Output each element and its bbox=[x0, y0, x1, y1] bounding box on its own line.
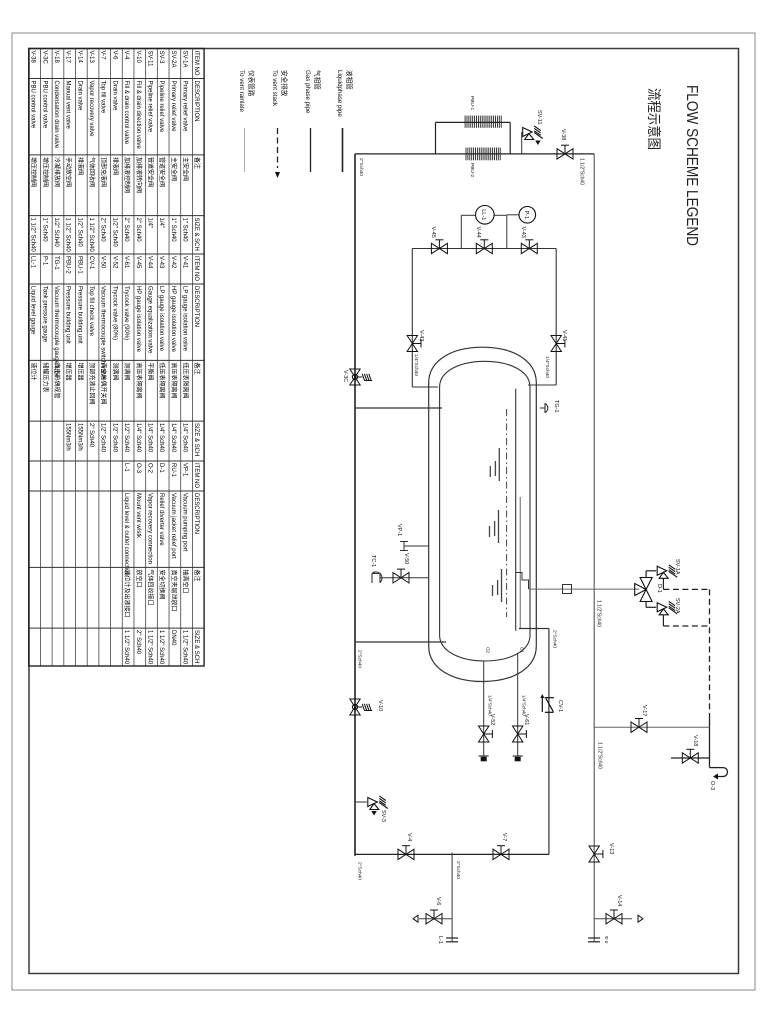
svg-text:气体回收阀: 气体回收阀 bbox=[88, 157, 96, 187]
svg-text:高压表隔离阀: 高压表隔离阀 bbox=[135, 363, 143, 399]
svg-text:Drain valve: Drain valve bbox=[111, 81, 117, 112]
svg-text:加排液转向阀: 加排液转向阀 bbox=[135, 157, 143, 193]
svg-text:主安全阀: 主安全阀 bbox=[182, 157, 190, 181]
svg-text:加排液控制阀: 加排液控制阀 bbox=[123, 157, 131, 193]
relief valve SV-1A bbox=[657, 565, 677, 579]
svg-text:2"Sch40: 2"Sch40 bbox=[357, 650, 363, 668]
svg-text:V-50: V-50 bbox=[403, 553, 409, 564]
svg-text:1 1/2" Sch40: 1 1/2" Sch40 bbox=[158, 630, 164, 665]
svg-text:V-38: V-38 bbox=[560, 129, 566, 140]
svg-text:1/4" Sch40: 1/4" Sch40 bbox=[182, 423, 188, 453]
PBU loop left vertical line bbox=[436, 121, 511, 123]
svg-text:O2: O2 bbox=[486, 647, 491, 654]
valve V-6 bbox=[426, 910, 442, 924]
svg-text:2"Sch40: 2"Sch40 bbox=[358, 158, 364, 176]
svg-text:Liquid level & outlet connecti: Liquid level & outlet connection bbox=[123, 493, 129, 576]
svg-text:V-45: V-45 bbox=[430, 227, 436, 238]
svg-text:真空夹层泄放口: 真空夹层泄放口 bbox=[170, 570, 178, 612]
liquid outlet line L-1 bbox=[451, 853, 453, 942]
svg-text:1/4" Sch40: 1/4" Sch40 bbox=[158, 423, 164, 453]
svg-text:V-42: V-42 bbox=[418, 330, 424, 341]
svg-text:放空口: 放空口 bbox=[135, 570, 143, 588]
svg-text:Liquid level gauge: Liquid level gauge bbox=[30, 286, 36, 335]
tank inner vessel shell bbox=[440, 361, 530, 661]
svg-text:1" Sch40: 1" Sch40 bbox=[41, 218, 47, 243]
svg-text:Trycock valve (90%): Trycock valve (90%) bbox=[123, 286, 129, 340]
svg-text:1 1/2" Sch40: 1 1/2" Sch40 bbox=[65, 218, 71, 253]
svg-text:V-10: V-10 bbox=[135, 51, 141, 64]
vent condensation drain drop bbox=[671, 757, 710, 759]
PBU-1 vaporizer fins bbox=[465, 116, 501, 128]
svg-text:2" Sch40: 2" Sch40 bbox=[88, 423, 94, 448]
fill-drain nozzle riser to tank bottom bbox=[355, 641, 446, 643]
valve V-52 bbox=[479, 726, 493, 742]
liquid level dashed line inside vessel bbox=[506, 409, 508, 617]
svg-text:CV-1: CV-1 bbox=[88, 256, 94, 270]
HP gauge bottom line bbox=[411, 249, 413, 388]
svg-text:V-14: V-14 bbox=[616, 895, 622, 906]
check valve CV-1 bbox=[540, 694, 554, 712]
svg-text:2"Sch40: 2"Sch40 bbox=[552, 630, 558, 648]
svg-text:Manual vent valve: Manual vent valve bbox=[65, 81, 71, 130]
svg-text:Pipeline relief valve: Pipeline relief valve bbox=[146, 81, 152, 133]
internal top fill spray line bbox=[519, 497, 521, 629]
svg-text:低压表隔离阀: 低压表隔离阀 bbox=[182, 363, 190, 399]
svg-text:平衡阀: 平衡阀 bbox=[146, 363, 154, 381]
relief riser from tank top bbox=[529, 588, 639, 590]
svg-text:冷凝排放阀: 冷凝排放阀 bbox=[53, 157, 61, 187]
svg-text:V-50: V-50 bbox=[100, 256, 106, 269]
riser to tank bottom from V-3C line bbox=[355, 407, 442, 409]
svg-text:V-17: V-17 bbox=[65, 51, 71, 64]
svg-text:液位计: 液位计 bbox=[30, 363, 38, 381]
svg-text:V-42: V-42 bbox=[170, 256, 176, 269]
svg-text:D-1: D-1 bbox=[656, 584, 662, 593]
svg-text:2" Sch40: 2" Sch40 bbox=[135, 630, 141, 655]
PBU loop bottom jumper bbox=[435, 122, 437, 153]
svg-text:LL-1: LL-1 bbox=[30, 256, 36, 269]
svg-text:1 1/2" Sch40: 1 1/2" Sch40 bbox=[30, 218, 36, 253]
svg-text:顶部充液阀: 顶部充液阀 bbox=[100, 157, 108, 187]
svg-text:SV-2A: SV-2A bbox=[170, 51, 176, 68]
tank outer jacket shell bbox=[429, 347, 537, 681]
svg-text:O-2: O-2 bbox=[146, 463, 152, 474]
svg-text:SIZE & SCH: SIZE & SCH bbox=[193, 218, 199, 251]
drain outlet arrow 2 bbox=[413, 915, 418, 922]
svg-text:TG-1: TG-1 bbox=[53, 256, 59, 270]
gauge P-1 bbox=[519, 207, 536, 224]
link D-1 to SV-1A bbox=[645, 571, 647, 578]
V-50 vacuum thermocouple stub bbox=[380, 577, 429, 579]
svg-text:真空热偶规管: 真空热偶规管 bbox=[53, 363, 61, 399]
svg-text:V-13: V-13 bbox=[88, 51, 94, 64]
svg-text:Vacuum pumping port: Vacuum pumping port bbox=[182, 493, 188, 552]
svg-text:Top fill valve: Top fill valve bbox=[100, 81, 106, 114]
svg-text:1/2" Sch40: 1/2" Sch40 bbox=[111, 423, 117, 453]
svg-text:Pipeline relief valve: Pipeline relief valve bbox=[158, 81, 164, 133]
svg-text:VP-1: VP-1 bbox=[396, 524, 402, 536]
svg-text:Top fill check valve: Top fill check valve bbox=[88, 286, 94, 337]
svg-text:2" Sch40: 2" Sch40 bbox=[135, 218, 141, 243]
svg-text:气体回收接口: 气体回收接口 bbox=[146, 570, 154, 606]
svg-text:2" Sch40: 2" Sch40 bbox=[123, 218, 129, 243]
liquid level marks cluster 3 bbox=[501, 569, 503, 602]
svg-text:LP gauge isolation valve: LP gauge isolation valve bbox=[182, 286, 188, 352]
valve V-13 bbox=[589, 846, 603, 862]
fill riser vertical line right bbox=[355, 853, 549, 855]
svg-text:LP gauge isolation valve: LP gauge isolation valve bbox=[158, 286, 164, 352]
svg-text:SV-11: SV-11 bbox=[536, 110, 542, 125]
internal trycock dip tube line bbox=[515, 389, 517, 631]
valve V-38 bbox=[557, 145, 573, 159]
svg-text:V-41: V-41 bbox=[561, 330, 567, 341]
svg-text:增压控制阀: 增压控制阀 bbox=[30, 157, 38, 187]
gas phase pipe main horizontal line bbox=[593, 154, 595, 942]
relief valve SV-2A bbox=[657, 601, 677, 615]
gauge tap upper link bbox=[506, 215, 508, 248]
svg-text:Pressure building unit: Pressure building unit bbox=[65, 286, 71, 344]
svg-text:D-1: D-1 bbox=[158, 463, 164, 473]
svg-text:SV-11: SV-11 bbox=[146, 51, 152, 68]
svg-text:V-43: V-43 bbox=[520, 227, 526, 238]
svg-text:V-41: V-41 bbox=[182, 256, 188, 269]
svg-text:增压器: 增压器 bbox=[76, 363, 84, 381]
valve V-18 bbox=[682, 749, 698, 763]
svg-text:HP gauge isolation valve: HP gauge isolation valve bbox=[135, 286, 141, 353]
SV-2A outlet dashed to vent header bbox=[663, 625, 709, 627]
vent stack gooseneck O-3 bbox=[710, 767, 724, 769]
svg-text:V-61: V-61 bbox=[523, 714, 529, 725]
liquid level marks cluster 2 bbox=[498, 510, 500, 543]
svg-text:DESCRIPTION: DESCRIPTION bbox=[193, 81, 199, 122]
svg-text:ITEM NO: ITEM NO bbox=[193, 463, 199, 488]
instrument riser line bbox=[412, 248, 556, 250]
svg-text:Vapor recovery connection: Vapor recovery connection bbox=[146, 493, 152, 564]
svg-text:Primary relief valve: Primary relief valve bbox=[170, 81, 176, 133]
valve V-10 bbox=[350, 699, 372, 715]
svg-text:2"Sch40: 2"Sch40 bbox=[357, 862, 363, 880]
svg-text:主安全阀: 主安全阀 bbox=[170, 157, 178, 181]
svg-text:1/4": 1/4" bbox=[158, 218, 164, 228]
svg-text:V-45: V-45 bbox=[135, 256, 141, 269]
valve V-17 bbox=[631, 719, 647, 733]
gas line end cap bbox=[588, 937, 600, 939]
svg-text:To vent rainlate: To vent rainlate bbox=[238, 70, 245, 113]
svg-text:SV-1A: SV-1A bbox=[182, 51, 188, 68]
svg-text:Trycock valve (80%): Trycock valve (80%) bbox=[111, 286, 117, 340]
svg-text:SV-2A: SV-2A bbox=[674, 598, 680, 614]
svg-text:VP-1: VP-1 bbox=[182, 463, 188, 477]
svg-text:155Nm3/h: 155Nm3/h bbox=[65, 423, 71, 451]
svg-text:Vapor recovery valve: Vapor recovery valve bbox=[88, 81, 94, 138]
liquid level marks cluster 1 bbox=[490, 448, 499, 481]
trycock line upper bbox=[517, 653, 519, 756]
svg-text:1/4"Sch40: 1/4"Sch40 bbox=[544, 356, 550, 378]
svg-text:To vent stack: To vent stack bbox=[271, 70, 278, 107]
relief nozzle step fitting to dip tube bbox=[516, 573, 529, 590]
svg-text:O1: O1 bbox=[520, 647, 525, 654]
svg-text:V-6: V-6 bbox=[435, 897, 441, 905]
svg-text:仪表管路: 仪表管路 bbox=[247, 70, 256, 97]
svg-text:LL-1: LL-1 bbox=[480, 209, 486, 220]
PBU main vertical line bbox=[355, 153, 594, 155]
manual vent riser bbox=[594, 726, 709, 728]
svg-text:SV-1A: SV-1A bbox=[674, 559, 680, 575]
svg-text:Fill & drain control valve: Fill & drain control valve bbox=[123, 81, 129, 145]
valve V-7 bbox=[493, 846, 509, 860]
svg-text:增压控制阀: 增压控制阀 bbox=[41, 157, 49, 187]
svg-text:1" Sch40: 1" Sch40 bbox=[170, 218, 176, 243]
link D-1 to SV-2A bbox=[645, 602, 647, 608]
V-6 drain drop bbox=[419, 918, 452, 920]
svg-text:V-6: V-6 bbox=[111, 51, 117, 61]
svg-text:SIZE & SCH: SIZE & SCH bbox=[193, 423, 199, 456]
svg-text:流程示意图: 流程示意图 bbox=[646, 88, 662, 150]
svg-text:1/2" Sch40: 1/2" Sch40 bbox=[111, 218, 117, 248]
HP tap riser to tank bottom bbox=[412, 386, 438, 388]
svg-text:DESCRIPTION: DESCRIPTION bbox=[193, 286, 199, 327]
svg-text:DESCRIPTION: DESCRIPTION bbox=[193, 493, 199, 534]
svg-text:Primary relief valve: Primary relief valve bbox=[182, 81, 188, 133]
svg-text:1 1/2"Sch40: 1 1/2"Sch40 bbox=[579, 158, 585, 185]
svg-text:ITEM NO: ITEM NO bbox=[193, 256, 199, 281]
svg-text:Mount vent w/stk: Mount vent w/stk bbox=[135, 493, 141, 539]
svg-text:Gas phase pipe: Gas phase pipe bbox=[304, 70, 311, 114]
svg-text:备注: 备注 bbox=[193, 157, 201, 169]
svg-text:液位计及出液接口: 液位计及出液接口 bbox=[123, 570, 131, 618]
svg-text:Relief diverter valve: Relief diverter valve bbox=[158, 493, 164, 546]
relief valve SV-11 bbox=[523, 126, 543, 145]
svg-text:O-3: O-3 bbox=[709, 781, 715, 790]
svg-text:1 1/2"Sch40: 1 1/2"Sch40 bbox=[596, 600, 602, 627]
svg-text:排液阀: 排液阀 bbox=[111, 157, 119, 175]
svg-text:管道安全阀: 管道安全阀 bbox=[158, 157, 166, 187]
svg-text:Liquidphase pipe: Liquidphase pipe bbox=[336, 70, 343, 117]
svg-text:PBU control valve: PBU control valve bbox=[41, 81, 47, 129]
P-1 drop link bbox=[507, 214, 519, 216]
svg-text:V-38: V-38 bbox=[30, 51, 36, 64]
PBU loop top jumper bbox=[509, 122, 511, 153]
svg-text:1/4" Sch40: 1/4" Sch40 bbox=[135, 423, 141, 453]
svg-text:TC-1: TC-1 bbox=[370, 555, 376, 567]
valve V-50 bbox=[393, 569, 409, 583]
svg-text:Condensation drain valve: Condensation drain valve bbox=[53, 81, 59, 149]
svg-text:1/4" Sch40: 1/4" Sch40 bbox=[146, 423, 152, 453]
svg-text:V-3C: V-3C bbox=[342, 370, 348, 382]
svg-text:V-52: V-52 bbox=[111, 256, 117, 269]
svg-text:V-17: V-17 bbox=[641, 705, 647, 716]
svg-text:1/4": 1/4" bbox=[146, 218, 152, 228]
TG-1 thermocouple dome on jacket top bbox=[540, 407, 545, 409]
svg-text:1/2" Sch40: 1/2" Sch40 bbox=[123, 423, 129, 453]
svg-text:排液阀: 排液阀 bbox=[76, 157, 84, 175]
valve V-61 bbox=[513, 726, 527, 742]
svg-text:1 1/2"Sch40: 1 1/2"Sch40 bbox=[597, 742, 603, 769]
SV-1A outlet dashed to vent header bbox=[663, 588, 709, 590]
vent header solid section bbox=[709, 719, 711, 768]
gauge tap lower link bbox=[460, 215, 462, 248]
svg-text:1 1/2" Sch40: 1 1/2" Sch40 bbox=[88, 218, 94, 253]
svg-text:DN40: DN40 bbox=[170, 630, 176, 646]
svg-text:增压器: 增压器 bbox=[65, 363, 73, 381]
top fill entry drop into tank bbox=[519, 628, 549, 630]
svg-text:储罐压力表: 储罐压力表 bbox=[41, 363, 49, 393]
svg-text:FLOW SCHEME LEGEND: FLOW SCHEME LEGEND bbox=[683, 85, 700, 246]
svg-text:真空热偶开关阀: 真空热偶开关阀 bbox=[100, 363, 108, 405]
gauge LL-1 bbox=[475, 206, 494, 225]
svg-text:1/2" Sch40: 1/2" Sch40 bbox=[53, 218, 59, 248]
svg-text:V-7: V-7 bbox=[501, 833, 507, 841]
svg-text:安全切换阀: 安全切换阀 bbox=[158, 570, 166, 600]
svg-text:PBU control valve: PBU control valve bbox=[30, 81, 36, 129]
svg-text:1/4"Sch40: 1/4"Sch40 bbox=[522, 695, 527, 716]
trycock upper end cap bbox=[513, 755, 523, 757]
svg-text:V-4: V-4 bbox=[123, 51, 129, 61]
VP-1 vacuum pumping port stub bbox=[404, 545, 429, 547]
drain outlet arrow bbox=[638, 915, 643, 922]
svg-text:备注: 备注 bbox=[193, 363, 201, 375]
liquid phase fill-drain main line bbox=[354, 154, 356, 856]
table outer border bbox=[29, 49, 204, 667]
svg-text:P-1: P-1 bbox=[523, 210, 529, 219]
svg-text:1/4" Sch40: 1/4" Sch40 bbox=[170, 423, 176, 453]
svg-text:安全排放: 安全排放 bbox=[280, 70, 289, 97]
valve V-4 bbox=[398, 846, 414, 860]
valve V-45 bbox=[431, 240, 447, 254]
svg-text:1/4"Sch40: 1/4"Sch40 bbox=[488, 695, 493, 716]
svg-text:手动放空阀: 手动放空阀 bbox=[65, 157, 73, 187]
svg-text:PBU-2: PBU-2 bbox=[469, 163, 475, 177]
svg-text:2" Sch40: 2" Sch40 bbox=[100, 218, 106, 243]
svg-text:TG-1: TG-1 bbox=[553, 400, 559, 413]
svg-text:1/2" Sch40: 1/2" Sch40 bbox=[76, 218, 82, 248]
svg-text:V-52: V-52 bbox=[489, 714, 495, 725]
svg-text:RU-1: RU-1 bbox=[170, 463, 176, 478]
svg-text:液相管: 液相管 bbox=[345, 70, 354, 90]
valve V-42 bbox=[407, 336, 421, 352]
svg-text:1/4"Sch40: 1/4"Sch40 bbox=[413, 354, 419, 376]
TC-1 thermocouple gauge tube dome bbox=[372, 572, 382, 583]
SV-3 branch stub bbox=[355, 801, 367, 803]
svg-text:SIZE & SCH: SIZE & SCH bbox=[193, 630, 199, 663]
diverter valve D-1 bbox=[635, 578, 652, 602]
svg-text:CV-1: CV-1 bbox=[557, 700, 563, 712]
svg-text:V-3C: V-3C bbox=[41, 51, 47, 65]
svg-text:V-7: V-7 bbox=[100, 51, 106, 61]
svg-text:顶部充液止回阀: 顶部充液止回阀 bbox=[88, 363, 96, 405]
PBU-2 vaporizer fins bbox=[466, 148, 500, 161]
svg-text:管道安全阀: 管道安全阀 bbox=[146, 157, 154, 187]
svg-text:SV-3: SV-3 bbox=[158, 51, 164, 65]
svg-text:V-13: V-13 bbox=[608, 843, 614, 854]
svg-text:Fill & drain direction valve: Fill & drain direction valve bbox=[135, 81, 141, 150]
svg-text:V-14: V-14 bbox=[76, 51, 82, 64]
svg-text:Drain valve: Drain valve bbox=[76, 81, 82, 112]
trycock lower end cap bbox=[479, 755, 489, 757]
svg-text:V-44: V-44 bbox=[475, 227, 481, 238]
svg-text:V-18: V-18 bbox=[692, 735, 698, 746]
svg-text:2"Sch40: 2"Sch40 bbox=[455, 861, 461, 879]
svg-text:气相管: 气相管 bbox=[313, 70, 322, 90]
svg-text:PBU-2: PBU-2 bbox=[65, 256, 71, 274]
LP tap drop to tank top bbox=[528, 384, 556, 386]
valve V-14 bbox=[606, 910, 622, 924]
svg-text:Pressure building unit: Pressure building unit bbox=[76, 286, 82, 344]
valve V-43 bbox=[521, 240, 537, 254]
svg-text:V-43: V-43 bbox=[158, 256, 164, 269]
relief valve SV-3 bbox=[368, 796, 388, 816]
valve V-41 bbox=[551, 336, 565, 352]
svg-text:1 1/2" Sch40: 1 1/2" Sch40 bbox=[182, 630, 188, 665]
parts list table bbox=[29, 49, 204, 667]
svg-text:V-4: V-4 bbox=[406, 833, 412, 841]
svg-text:O-3: O-3 bbox=[135, 463, 141, 474]
svg-text:V-61: V-61 bbox=[123, 256, 129, 269]
svg-text:155Nm3/h: 155Nm3/h bbox=[76, 423, 82, 451]
svg-text:PBU-1: PBU-1 bbox=[76, 256, 82, 274]
svg-text:测满阀: 测满阀 bbox=[111, 363, 119, 381]
svg-text:Tank pressure gauge: Tank pressure gauge bbox=[41, 286, 47, 343]
svg-text:抽真空口: 抽真空口 bbox=[182, 570, 190, 594]
svg-text:1/2" Sch40: 1/2" Sch40 bbox=[100, 423, 106, 453]
svg-text:1 1/2" Sch40: 1 1/2" Sch40 bbox=[146, 630, 152, 665]
SV-1A outlet link bbox=[662, 578, 664, 589]
svg-text:L-1: L-1 bbox=[437, 936, 443, 944]
svg-text:Vacuum jacket relief port: Vacuum jacket relief port bbox=[170, 493, 176, 559]
SV-2A outlet link bbox=[662, 615, 664, 626]
svg-text:PBU-1: PBU-1 bbox=[469, 96, 475, 110]
svg-text:V-10: V-10 bbox=[377, 700, 383, 711]
svg-text:1 1/2" Sch40: 1 1/2" Sch40 bbox=[123, 630, 129, 665]
svg-text:备注: 备注 bbox=[193, 570, 201, 582]
V-14 drain stub up bbox=[594, 918, 632, 920]
svg-text:SV-3: SV-3 bbox=[380, 810, 386, 822]
svg-text:V-18: V-18 bbox=[53, 51, 59, 64]
svg-text:Φ 6: Φ 6 bbox=[604, 936, 609, 944]
svg-text:L-1: L-1 bbox=[123, 463, 129, 472]
svg-text:Gauge equalization valve: Gauge equalization valve bbox=[146, 286, 152, 354]
svg-text:P-1: P-1 bbox=[41, 256, 47, 266]
svg-text:低压表隔离阀: 低压表隔离阀 bbox=[158, 363, 166, 399]
valve V-3C bbox=[350, 369, 372, 385]
reducer fitting on relief riser bbox=[563, 585, 572, 594]
svg-text:HP gauge isolation valve: HP gauge isolation valve bbox=[170, 286, 176, 353]
svg-text:高压表隔离阀: 高压表隔离阀 bbox=[170, 363, 178, 399]
valve V-44 bbox=[476, 240, 492, 254]
top fill upper line bbox=[548, 629, 550, 855]
LP gauge top line bbox=[555, 249, 557, 386]
vent header dashed line bbox=[709, 589, 711, 719]
svg-text:V-44: V-44 bbox=[146, 256, 152, 269]
trycock line lower bbox=[483, 661, 485, 756]
svg-text:测满阀: 测满阀 bbox=[123, 363, 131, 381]
svg-text:1" Sch40: 1" Sch40 bbox=[182, 218, 188, 243]
svg-text:ITEM NO: ITEM NO bbox=[193, 51, 199, 76]
L-1 end cap bbox=[446, 937, 458, 939]
SV-11 branch stub bbox=[521, 132, 523, 154]
